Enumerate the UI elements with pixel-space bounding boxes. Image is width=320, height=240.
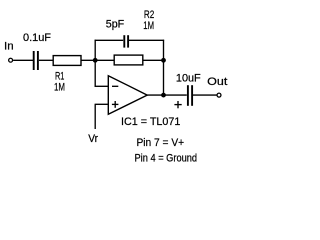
wire: [39, 59, 53, 61]
svg-text:1M: 1M: [54, 81, 65, 93]
wire: [95, 39, 124, 41]
node Out terminal: [217, 93, 221, 97]
svg-text:10uF: 10uF: [176, 73, 201, 85]
svg-text:In: In: [4, 40, 14, 52]
op-amp plus sign: [112, 101, 119, 108]
wire: [163, 40, 165, 96]
wire: [81, 59, 114, 61]
op-amp U1 triangle: [108, 76, 147, 115]
wire (non-inverting input): [95, 103, 109, 105]
wire (inverting input): [95, 85, 109, 87]
node B junction: [161, 58, 166, 63]
svg-text:Pin 7 = V+: Pin 7 = V+: [137, 137, 185, 149]
capacitor C3 10uF plus sign: [174, 101, 181, 108]
svg-text:Pin 4 = Ground: Pin 4 = Ground: [135, 153, 198, 165]
wire (Vr lead): [94, 104, 96, 129]
wire: [193, 94, 217, 96]
node In terminal: [9, 58, 13, 62]
capacitor C2 5pF: [124, 35, 128, 47]
svg-text:Vr: Vr: [88, 133, 98, 145]
svg-text:5pF: 5pF: [106, 18, 125, 30]
wire: [129, 39, 164, 41]
op-amp minus sign: [112, 85, 118, 87]
svg-text:0.1uF: 0.1uF: [23, 32, 51, 44]
node A junction: [93, 58, 98, 63]
node C junction: [161, 93, 166, 98]
wire (output): [147, 94, 187, 96]
resistor R2: [114, 55, 143, 65]
svg-text:Out: Out: [207, 76, 227, 88]
svg-text:1M: 1M: [143, 20, 154, 32]
svg-text:IC1 = TL071: IC1 = TL071: [121, 116, 180, 128]
capacitor C3 10uF: [188, 85, 192, 106]
resistor R1: [53, 56, 81, 66]
wire: [94, 40, 96, 87]
capacitor C1 0.1uF: [34, 51, 38, 70]
wire: [143, 59, 164, 61]
wire: [13, 59, 33, 61]
